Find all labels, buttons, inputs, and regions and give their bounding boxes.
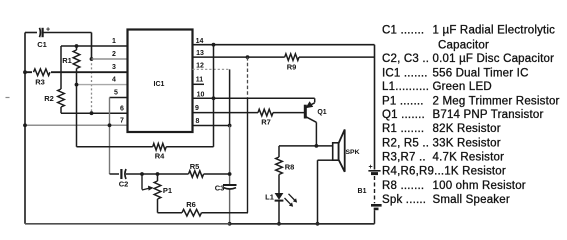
svg-text:B714 PNP Transistor: B714 PNP Transistor [433, 109, 544, 121]
svg-text:R7: R7 [261, 118, 271, 127]
svg-text:C1: C1 [37, 40, 47, 49]
svg-text:+: + [46, 27, 50, 34]
svg-text:0.01 µF Disc Capacitor: 0.01 µF Disc Capacitor [433, 53, 555, 65]
svg-text:1: 1 [112, 38, 116, 45]
svg-text:C2: C2 [119, 180, 129, 189]
svg-text:C3: C3 [215, 184, 225, 193]
svg-text:R9: R9 [287, 63, 297, 72]
svg-text:R3,R7 ..: R3,R7 .. [382, 151, 426, 163]
svg-text:L1..........: L1.......... [382, 81, 429, 93]
svg-text:Green LED: Green LED [433, 81, 492, 93]
svg-text:13: 13 [196, 50, 204, 57]
svg-text:IC1 .......: IC1 ....... [382, 67, 428, 79]
svg-text:33K Resistor: 33K Resistor [433, 137, 501, 149]
svg-text:10: 10 [197, 92, 205, 99]
svg-text:R8: R8 [285, 163, 295, 172]
svg-text:R5: R5 [190, 162, 200, 171]
svg-text:4: 4 [112, 77, 116, 84]
svg-text:R3: R3 [35, 78, 45, 87]
svg-text:1 µF Radial Electrolytic: 1 µF Radial Electrolytic [433, 24, 556, 36]
svg-text:5: 5 [114, 90, 118, 97]
svg-text:Spk ......: Spk ...... [382, 194, 426, 206]
svg-text:556 Dual Timer IC: 556 Dual Timer IC [433, 67, 529, 79]
svg-text:IC1: IC1 [154, 81, 165, 88]
svg-text:P1: P1 [163, 186, 172, 195]
svg-text:P1 .......: P1 ....... [382, 95, 424, 107]
svg-text:11: 11 [196, 77, 204, 84]
svg-text:R8 .......: R8 ....... [382, 180, 424, 192]
svg-text:C2, C3 ..: C2, C3 .. [382, 53, 429, 65]
svg-text:Q1: Q1 [317, 109, 326, 116]
svg-text:R6: R6 [186, 200, 196, 209]
svg-text:12: 12 [196, 63, 204, 70]
svg-text:+: + [368, 164, 372, 171]
svg-text:R2, R5 ..: R2, R5 .. [382, 137, 429, 149]
svg-text:3: 3 [112, 64, 116, 71]
svg-text:B1: B1 [358, 188, 367, 195]
svg-text:9: 9 [195, 105, 199, 112]
svg-text:C1 .......: C1 ....... [382, 24, 424, 36]
svg-text:8: 8 [196, 118, 200, 125]
svg-text:R4,R6,R9...1K Resistor: R4,R6,R9...1K Resistor [382, 165, 506, 177]
svg-text:6: 6 [120, 106, 124, 113]
svg-text:82K Resistor: 82K Resistor [433, 123, 501, 135]
svg-text:2 Meg Trimmer Resistor: 2 Meg Trimmer Resistor [433, 95, 560, 107]
svg-text:R2: R2 [44, 94, 54, 103]
svg-text:R4: R4 [155, 152, 165, 161]
svg-text:4.7K Resistor: 4.7K Resistor [433, 151, 505, 163]
svg-text:2: 2 [112, 51, 116, 58]
svg-text:100 ohm Resistor: 100 ohm Resistor [433, 180, 526, 192]
svg-text:SPK: SPK [346, 149, 360, 156]
svg-text:Small Speaker: Small Speaker [433, 194, 510, 206]
svg-text:L1: L1 [265, 193, 274, 202]
svg-text:7: 7 [120, 117, 124, 124]
svg-text:R1 .......: R1 ....... [382, 123, 424, 135]
svg-text:Q1 .......: Q1 ....... [382, 109, 425, 121]
svg-text:R1: R1 [62, 56, 72, 65]
svg-text:Capacitor: Capacitor [438, 39, 489, 51]
